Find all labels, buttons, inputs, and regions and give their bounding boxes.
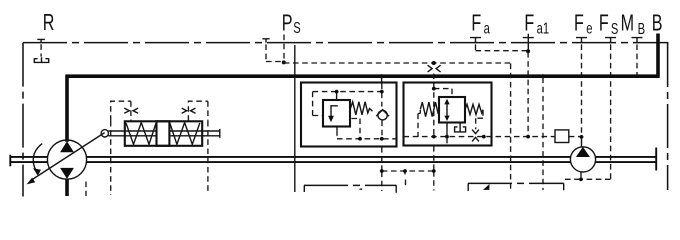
port Fa1 symbol <box>523 34 534 51</box>
feedback dashed line right <box>207 121 209 192</box>
pilot line Fa <box>476 44 528 50</box>
wire aux pump outlet stub <box>581 139 583 147</box>
left control valve block <box>301 83 397 147</box>
nozzle orifice above right block <box>428 61 441 83</box>
svg-text:S: S <box>293 18 300 37</box>
drain gallery dashed horizontal <box>337 137 581 139</box>
svg-text:F: F <box>599 11 609 36</box>
node tap to control block <box>380 74 384 78</box>
orifice in drain gallery <box>472 130 479 142</box>
wire pump suction thick vertical <box>65 179 69 197</box>
aux pump circle <box>570 147 595 172</box>
svg-text:B: B <box>652 11 663 36</box>
main pump outlet triangle <box>60 141 74 152</box>
node right block pilot junction <box>432 87 436 91</box>
lower unit envelope left section <box>304 185 397 192</box>
filter box on aux line <box>555 130 569 143</box>
node lower gallery junctions <box>380 169 384 173</box>
port PS symbol <box>262 35 284 62</box>
main pump circle <box>47 140 86 179</box>
wire aux pump suction stub <box>580 172 582 180</box>
lower unit envelope right section <box>468 183 564 191</box>
port R symbol <box>34 39 48 62</box>
suction gallery dashes <box>565 178 581 180</box>
check valve <box>376 93 389 138</box>
pilot line FS down and left to aux pump suction <box>581 44 611 179</box>
drain plug symbol (right block) <box>455 123 466 132</box>
node PS junction <box>282 60 286 64</box>
svg-text:a1: a1 <box>537 19 549 38</box>
variable displacement arrow through pump <box>27 133 105 185</box>
svg-text:R: R <box>43 10 55 35</box>
double arrow inside <box>444 99 449 121</box>
drain gallery continues below blocks <box>382 146 434 191</box>
svg-text:S: S <box>611 19 618 38</box>
cylinder spring right <box>170 123 200 145</box>
control block divider line <box>294 45 296 192</box>
aux pump triangle <box>576 147 590 157</box>
wire tap into left block <box>381 76 383 83</box>
node aux suction junction <box>579 177 583 181</box>
pressure valve square (left block) <box>323 100 350 127</box>
right control valve block <box>404 83 492 146</box>
port Fa symbol <box>470 38 481 44</box>
svg-text:F: F <box>524 11 534 36</box>
valve square bottom stub <box>336 127 338 131</box>
case drain dashed stub <box>85 182 87 197</box>
spring drain left dashes <box>418 110 420 137</box>
port FS symbol <box>605 38 616 44</box>
pilot lines right block <box>434 83 452 135</box>
node tap to lower unit <box>541 74 545 78</box>
stroking cylinder piston <box>157 121 170 146</box>
stroke limiter box right <box>188 101 208 121</box>
stroking cylinder body <box>125 121 202 146</box>
cylinder spring left <box>126 123 156 145</box>
valve spring right (right block) <box>465 104 483 114</box>
piston rod left with eye <box>101 130 156 137</box>
pilot line Fe down <box>581 44 583 135</box>
stroke limiter box left <box>111 101 131 121</box>
valve spring (left block) <box>351 102 373 115</box>
wire pump outlet thick vertical <box>65 75 69 142</box>
pilot dashes in left block top <box>313 84 382 116</box>
drive shaft double line <box>10 148 656 171</box>
svg-text:a: a <box>484 19 490 38</box>
pilot line PS horizontal <box>284 62 511 64</box>
stroke limiter symbol left <box>124 108 138 113</box>
node Fa1 junction <box>526 49 530 53</box>
valve spring left (right block) <box>420 102 439 116</box>
wire tap down to lower unit <box>542 78 544 191</box>
pilot drop PS to lower unit <box>510 64 512 192</box>
node left block pilot junctions <box>335 90 339 94</box>
valve arrow inside <box>331 106 338 117</box>
svg-text:F: F <box>471 11 481 36</box>
valve square bottom stub (right block) <box>446 123 448 130</box>
svg-text:e: e <box>586 19 592 38</box>
pilot line MB down to pressure line <box>636 44 638 74</box>
pilot line Fa1 down <box>527 52 529 135</box>
regulator valve square (right block) <box>439 97 465 123</box>
pressure line B (thick) <box>66 34 660 77</box>
rotation direction arrow <box>33 144 42 176</box>
main pump inlet triangle <box>60 168 74 179</box>
enclosure envelope (chain line) <box>23 43 668 197</box>
svg-text:B: B <box>638 19 645 38</box>
svg-text:M: M <box>621 11 634 36</box>
node drain junctions <box>358 137 362 141</box>
port Fe symbol <box>576 38 587 44</box>
feedback dashed line left <box>110 121 112 195</box>
piston rod right <box>169 129 219 138</box>
port MB symbol <box>632 38 643 44</box>
spring drain right dashes <box>476 110 483 129</box>
svg-text:P: P <box>282 11 293 36</box>
svg-text:F: F <box>574 11 584 36</box>
spring drain dashes <box>352 119 361 138</box>
stroke limiter symbol right <box>182 108 196 113</box>
